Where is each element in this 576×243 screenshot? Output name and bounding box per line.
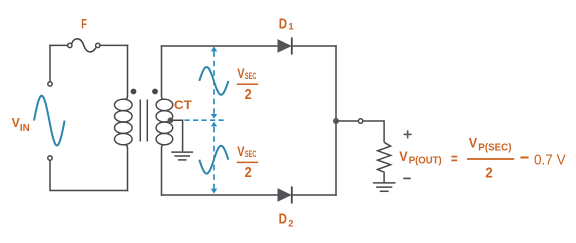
svg-text:IN: IN — [20, 122, 30, 134]
label VP(SEC) numerator — [467, 135, 514, 182]
wire secondary left vertical lower with lead from coil — [162, 145, 165, 195]
node output junction dot — [333, 118, 339, 124]
svg-text:V: V — [237, 143, 245, 159]
label minus — [403, 177, 410, 179]
source terminal top — [48, 82, 52, 86]
svg-text:P(OUT): P(OUT) — [409, 155, 442, 166]
svg-text:D: D — [279, 211, 288, 227]
label D1 — [279, 16, 295, 32]
source sine VIN — [34, 96, 65, 146]
svg-text:SEC: SEC — [245, 71, 257, 81]
svg-text:D: D — [279, 16, 288, 32]
wire terminal to resistor — [363, 121, 385, 142]
wire primary left rail upper — [49, 45, 51, 81]
fuse F — [68, 39, 100, 52]
svg-text:P(SEC): P(SEC) — [478, 142, 511, 153]
wire primary left rail lower — [50, 160, 128, 190]
svg-text:CT: CT — [174, 98, 193, 112]
wire secondary bottom to D2 — [162, 194, 279, 196]
resistor RL — [378, 142, 391, 182]
label equals — [451, 157, 457, 161]
dashed measure horizontal line — [185, 119, 225, 121]
node CT dot — [168, 117, 174, 123]
svg-text:2: 2 — [245, 165, 252, 181]
svg-text:1: 1 — [288, 22, 294, 33]
wire node to output terminal — [336, 120, 359, 122]
ground (output) — [373, 183, 396, 191]
dashed measure vertical line — [213, 51, 215, 189]
arrowhead down (mid upper) — [211, 114, 217, 119]
wire primary right vertical upper with lead into coil — [123, 45, 127, 99]
polarity dot secondary — [152, 89, 158, 95]
svg-text:SEC: SEC — [245, 149, 257, 159]
svg-text:V: V — [12, 115, 20, 130]
output terminal circle — [358, 119, 362, 123]
svg-text:V: V — [237, 65, 245, 81]
svg-text:V: V — [399, 148, 408, 164]
label minus (formula) — [520, 157, 528, 159]
transformer core — [140, 100, 147, 142]
source terminal bottom — [48, 156, 52, 160]
arrowhead up (top) — [211, 46, 217, 51]
wire secondary left vertical upper with lead into coil — [162, 46, 165, 99]
svg-text:2: 2 — [288, 219, 293, 230]
transformer secondary coil — [156, 99, 173, 145]
svg-text:F: F — [81, 16, 87, 32]
ground (center tap) — [171, 152, 193, 160]
diode D1 — [278, 37, 292, 54]
wire center tap — [170, 120, 182, 151]
svg-text:V: V — [469, 135, 478, 151]
label plus — [404, 130, 412, 138]
wire primary top-left segment — [50, 44, 68, 46]
transformer primary coil — [115, 99, 133, 145]
sine top (Vsec/2 upper) — [199, 67, 228, 95]
wire primary right vertical lower with lead from coil — [123, 145, 127, 191]
svg-text:0.7 V: 0.7 V — [534, 152, 566, 169]
wire secondary top to D1 — [162, 45, 279, 47]
label Vsec/2 upper — [237, 65, 258, 103]
wire right rail — [335, 46, 337, 195]
arrowhead down (bottom) — [211, 189, 217, 194]
wire D1 to right rail — [293, 45, 337, 47]
wire primary top-right segment — [100, 44, 127, 46]
label VP(OUT) — [399, 148, 441, 167]
arrowhead up (mid lower) — [211, 122, 217, 127]
label VIN — [12, 115, 30, 134]
label D2 — [279, 211, 294, 229]
diode D2 — [278, 186, 292, 203]
wire D2 to right rail — [293, 194, 337, 196]
sine bottom (Vsec/2 lower, inverted) — [199, 146, 228, 174]
svg-text:2: 2 — [485, 164, 492, 181]
polarity dot primary — [131, 89, 137, 95]
svg-text:2: 2 — [245, 87, 252, 103]
label Vsec/2 lower — [237, 143, 258, 181]
